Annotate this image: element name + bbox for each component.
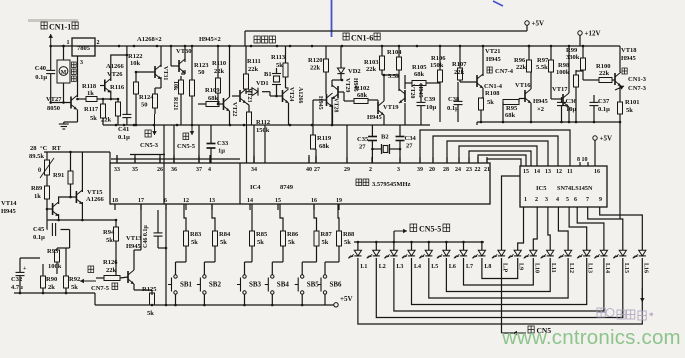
- svg-text:+5V: +5V: [600, 135, 613, 143]
- svg-text:34: 34: [251, 167, 257, 173]
- LED L15: [613, 244, 629, 273]
- transistor VT20: [399, 75, 423, 125]
- svg-text:A1266: A1266: [106, 63, 124, 70]
- svg-text:5k: 5k: [257, 239, 264, 246]
- svg-text:R88: R88: [343, 231, 355, 238]
- transistor VT27: [46, 96, 77, 113]
- svg-text:CN5-5: CN5-5: [177, 143, 196, 150]
- svg-text:R121: R121: [172, 97, 178, 110]
- svg-text:C46 0.1μ: C46 0.1μ: [143, 225, 149, 248]
- svg-text:H945: H945: [126, 243, 142, 250]
- capacitor C38: [447, 82, 463, 122]
- svg-text:R110: R110: [212, 60, 226, 67]
- resistor R118: [76, 83, 118, 102]
- resistor R92: [64, 248, 81, 293]
- resistor R100: [583, 63, 615, 83]
- svg-text:R117: R117: [84, 106, 99, 113]
- svg-text:R123: R123: [194, 62, 209, 69]
- svg-text:R105: R105: [412, 64, 427, 71]
- crystal B2: [372, 134, 400, 155]
- wire: y154 segment: [130, 154, 165, 156]
- svg-text:L7: L7: [466, 264, 473, 270]
- svg-text:L.P: L.P: [502, 263, 508, 273]
- transistor VT29: [332, 78, 358, 125]
- svg-text:330k: 330k: [566, 54, 580, 61]
- svg-text:3: 3: [545, 197, 548, 203]
- svg-text:L16: L16: [642, 263, 648, 273]
- svg-text:C36: C36: [566, 98, 578, 105]
- watermark: [501, 326, 681, 349]
- svg-text:H945: H945: [486, 56, 502, 63]
- wire: CN1-1 drop: [48, 34, 53, 46]
- switch SB3: [237, 262, 262, 305]
- svg-text:VT15: VT15: [87, 189, 103, 196]
- svg-text:A1268×2: A1268×2: [137, 36, 162, 43]
- svg-text:L3: L3: [396, 264, 403, 270]
- resistor R121: [172, 76, 184, 125]
- svg-text:5k: 5k: [191, 239, 198, 246]
- svg-text:*: *: [649, 311, 654, 321]
- svg-text:L13: L13: [587, 263, 593, 273]
- resistor R84: [212, 204, 231, 262]
- switch SB4: [265, 262, 290, 305]
- svg-text:VT17: VT17: [552, 86, 568, 93]
- svg-text:R101: R101: [625, 99, 639, 106]
- transistor VT31: [135, 46, 168, 88]
- svg-text:R122: R122: [128, 53, 142, 60]
- resistor R125: [142, 286, 157, 317]
- power +5V at IC5: [593, 135, 612, 167]
- resistor R124: [139, 88, 158, 114]
- label 由CN7-5来: [80, 266, 118, 292]
- svg-text:R108: R108: [485, 90, 500, 97]
- svg-text:SN74LS145N: SN74LS145N: [557, 185, 593, 192]
- svg-text:H945: H945: [367, 114, 383, 121]
- transistor VT14: [1, 200, 59, 216]
- svg-text:50: 50: [141, 102, 148, 109]
- resistor R122: [128, 53, 142, 125]
- svg-text:L4: L4: [414, 264, 421, 270]
- svg-text:+5V: +5V: [340, 295, 353, 303]
- svg-text:10k: 10k: [172, 81, 178, 91]
- capacitor C36: [557, 97, 577, 122]
- svg-text:10k: 10k: [130, 60, 141, 67]
- svg-text:33: 33: [114, 167, 120, 173]
- capacitor C41: [118, 46, 131, 141]
- svg-text:R102: R102: [355, 85, 369, 92]
- svg-text:×2: ×2: [537, 106, 544, 113]
- resistor R120: [308, 46, 329, 94]
- resistor R104: [382, 46, 402, 90]
- svg-text:13: 13: [209, 198, 215, 204]
- svg-text:5k: 5k: [276, 62, 283, 69]
- resistor R113: [271, 46, 288, 88]
- diode VD1: [246, 80, 277, 96]
- svg-text:5: 5: [566, 197, 569, 203]
- svg-text:R124: R124: [139, 94, 154, 101]
- resistor R98: [556, 62, 583, 122]
- wire: bus IC4-IC5: [420, 130, 570, 166]
- svg-text:5k: 5k: [626, 107, 633, 114]
- svg-text:R104: R104: [387, 49, 402, 56]
- svg-text:1: 1: [67, 40, 70, 46]
- capacitor C32: [11, 258, 40, 293]
- svg-text:27: 27: [406, 143, 413, 150]
- resistor R102: [344, 85, 369, 104]
- svg-text:R92: R92: [69, 276, 80, 283]
- LED L8: [472, 242, 491, 270]
- svg-text:A1266: A1266: [86, 196, 104, 203]
- svg-text:L9: L9: [518, 263, 524, 270]
- svg-text:VT30: VT30: [176, 48, 192, 55]
- svg-text:1μ: 1μ: [218, 148, 225, 155]
- resistor R106: [430, 46, 446, 122]
- transistor VT24: [277, 87, 304, 125]
- svg-text:C45: C45: [33, 226, 45, 233]
- svg-text:VT21: VT21: [485, 48, 501, 55]
- resistor R87: [314, 204, 332, 262]
- svg-text:θ: θ: [38, 168, 41, 174]
- svg-text:21: 21: [484, 167, 490, 173]
- handwriting artifact: [597, 308, 654, 321]
- svg-text:VT23: VT23: [246, 88, 252, 102]
- svg-text:8 10: 8 10: [577, 157, 588, 163]
- svg-text:L2: L2: [379, 264, 386, 270]
- svg-text:5.5k: 5.5k: [536, 64, 548, 71]
- svg-text:7: 7: [586, 197, 589, 203]
- svg-text:6: 6: [574, 197, 577, 203]
- svg-text:R85: R85: [256, 231, 268, 238]
- power +12V: [578, 30, 601, 47]
- svg-text:R84: R84: [219, 231, 231, 238]
- LED L1: [348, 242, 367, 270]
- LED L5: [419, 242, 438, 270]
- svg-text:R98: R98: [558, 62, 570, 69]
- svg-text:5k: 5k: [71, 284, 78, 291]
- svg-text:7805: 7805: [77, 45, 91, 52]
- resistor R123: [190, 46, 210, 125]
- svg-text:R86: R86: [287, 231, 299, 238]
- svg-text:SB2: SB2: [209, 281, 222, 289]
- svg-text:100k: 100k: [556, 69, 570, 76]
- svg-text:2: 2: [369, 167, 372, 173]
- LED L13: [577, 244, 593, 273]
- svg-text:+: +: [23, 266, 27, 272]
- switch SB2: [197, 262, 222, 305]
- LED L12: [559, 244, 575, 273]
- svg-text:27: 27: [359, 144, 366, 151]
- wire: drops to IC4 pins: [117, 125, 347, 163]
- wire: emitter bus: [103, 124, 430, 127]
- svg-text:1k: 1k: [34, 193, 41, 200]
- capacitor C39: [417, 83, 437, 125]
- resistor R86: [280, 204, 299, 262]
- svg-text:www.cntronics.com: www.cntronics.com: [501, 326, 681, 349]
- svg-text:150k: 150k: [430, 62, 444, 69]
- svg-text:68k: 68k: [414, 71, 425, 78]
- svg-text:SB4: SB4: [277, 281, 290, 289]
- svg-text:35: 35: [132, 167, 138, 173]
- wire: LP down to CN5: [502, 262, 514, 333]
- transistor VT15: [76, 152, 104, 220]
- wire: pin6 column: [165, 204, 167, 305]
- resistor R119: [311, 100, 332, 150]
- svg-text:3: 3: [397, 167, 400, 173]
- transistor VT19: [367, 75, 399, 125]
- label 由CN1-6来: [343, 33, 380, 43]
- LED L11: [541, 244, 557, 273]
- svg-text:C40: C40: [35, 65, 46, 72]
- svg-text:VT13: VT13: [126, 235, 142, 242]
- resistor R99: [566, 46, 586, 80]
- arrow below L16: [640, 288, 645, 302]
- wire: VT27 emitter: [64, 110, 78, 123]
- resistor R88: [337, 204, 355, 262]
- svg-text:5k: 5k: [90, 115, 97, 122]
- svg-text:1: 1: [524, 197, 527, 203]
- svg-text:SB1: SB1: [180, 281, 193, 289]
- svg-text:C34: C34: [405, 135, 417, 142]
- svg-text:IC5: IC5: [536, 185, 547, 192]
- svg-text:22k: 22k: [101, 117, 112, 124]
- capacitor C35: [357, 125, 377, 163]
- svg-text:CN1-3: CN1-3: [628, 76, 647, 83]
- LED L10: [524, 244, 540, 273]
- capacitor C40: [35, 45, 55, 103]
- svg-text:22k: 22k: [310, 65, 321, 72]
- LED L6: [437, 242, 456, 270]
- resistor R95: [503, 99, 519, 123]
- svg-text:28: 28: [443, 167, 449, 173]
- transistor VT17: [551, 46, 569, 122]
- wire: mid column drops: [254, 125, 316, 163]
- scan smudge top-left: [28, 19, 78, 22]
- transistor VT26: [100, 54, 128, 101]
- svg-text:100k: 100k: [48, 263, 62, 270]
- svg-text:VT27: VT27: [46, 96, 62, 103]
- svg-text:22k: 22k: [454, 69, 465, 76]
- svg-text:15: 15: [523, 169, 529, 175]
- svg-text:C37: C37: [598, 98, 610, 105]
- svg-text:L11: L11: [550, 263, 556, 273]
- svg-text:28: 28: [30, 145, 37, 152]
- svg-text:22k: 22k: [516, 64, 527, 71]
- svg-text:R118: R118: [82, 83, 97, 90]
- svg-text:R97: R97: [537, 57, 549, 64]
- svg-text:R83: R83: [190, 231, 202, 238]
- label 去CN5-5: [177, 121, 196, 150]
- svg-text:50: 50: [198, 69, 205, 76]
- pin numbers IC5 bottom: [524, 197, 602, 203]
- svg-text:R125: R125: [142, 286, 157, 293]
- resistor R90: [41, 264, 58, 293]
- resistor R97: [536, 46, 554, 99]
- wire: LED feed rail: [354, 241, 484, 244]
- resistor R117: [84, 98, 106, 125]
- transistor VT16: [515, 72, 531, 122]
- svg-text:2: 2: [97, 40, 100, 46]
- svg-text:R91: R91: [53, 172, 64, 179]
- wire: IC5 to LEDs: [518, 207, 643, 244]
- svg-text:37: 37: [196, 167, 202, 173]
- svg-text:C41: C41: [118, 126, 129, 133]
- resistor R101: [618, 99, 640, 123]
- svg-text:R95: R95: [506, 105, 518, 112]
- wire: VT27 collector to 7805 pin3: [76, 56, 79, 97]
- wire: IC4 pin stubs bottom: [115, 204, 339, 210]
- svg-text:29: 29: [344, 167, 350, 173]
- svg-text:L15: L15: [623, 263, 629, 273]
- wire: main +V rail (y=44): [50, 45, 620, 47]
- svg-text:R119: R119: [317, 135, 332, 142]
- resistor R91: [53, 151, 73, 197]
- svg-text:2k: 2k: [48, 284, 55, 291]
- svg-text:VT20: VT20: [409, 84, 415, 98]
- thermistor RT: [29, 145, 61, 186]
- svg-text:R94: R94: [103, 229, 115, 236]
- svg-text:4: 4: [556, 197, 559, 203]
- svg-text:5k: 5k: [220, 239, 227, 246]
- svg-text:26: 26: [157, 167, 163, 173]
- label pins 8 10: [577, 157, 588, 166]
- wire: y159 line: [111, 158, 240, 160]
- svg-text:0.1μ: 0.1μ: [447, 105, 459, 112]
- svg-text:36: 36: [171, 167, 177, 173]
- svg-text:89.5k: 89.5k: [29, 153, 44, 160]
- svg-text:5k: 5k: [288, 239, 295, 246]
- svg-text:150k: 150k: [256, 127, 270, 134]
- svg-text:5.5k: 5.5k: [388, 73, 400, 80]
- svg-text:R87: R87: [321, 231, 333, 238]
- svg-text:H945: H945: [417, 84, 423, 98]
- transistor VT30: [171, 46, 192, 74]
- label crystal freq: [356, 179, 411, 188]
- svg-text:CN1-4: CN1-4: [484, 83, 503, 90]
- node: junction dots on rails: [62, 45, 584, 48]
- svg-text:2: 2: [535, 197, 538, 203]
- resistor R103: [364, 46, 385, 76]
- svg-text:8050: 8050: [47, 105, 60, 112]
- pin numbers IC4 bottom: [112, 198, 342, 204]
- svg-text:L5: L5: [431, 264, 438, 270]
- wire: emitter node y220: [48, 219, 116, 222]
- svg-text:CN7-4: CN7-4: [495, 68, 514, 75]
- svg-text:12: 12: [183, 198, 189, 204]
- svg-text:R120: R120: [308, 57, 322, 64]
- svg-text:CN5-5: CN5-5: [419, 225, 441, 234]
- resistor R112: [247, 112, 271, 134]
- svg-text:22: 22: [475, 167, 481, 173]
- svg-text:VT22: VT22: [231, 102, 237, 116]
- svg-text:R96: R96: [514, 57, 526, 64]
- wire: IC4 inner vlines: [164, 163, 240, 204]
- svg-text:0.1μ: 0.1μ: [598, 106, 610, 113]
- svg-text:0.1μ: 0.1μ: [33, 234, 45, 241]
- svg-text:68k: 68k: [357, 92, 368, 99]
- wire: left ground bus: [14, 292, 95, 305]
- svg-text:39: 39: [417, 167, 423, 173]
- IC U-IC4 8749: [110, 163, 490, 204]
- svg-text:°C: °C: [40, 145, 48, 152]
- svg-text:VD1: VD1: [256, 80, 269, 87]
- svg-text:VT24: VT24: [288, 87, 294, 101]
- resistor R111: [244, 46, 261, 92]
- diode VD2: [337, 46, 360, 80]
- svg-text:24: 24: [455, 167, 461, 173]
- svg-text:15: 15: [275, 198, 281, 204]
- svg-text:12: 12: [556, 169, 562, 175]
- wire: RT rail: [44, 152, 110, 163]
- svg-text:5k: 5k: [344, 239, 351, 246]
- wire: CN1-6 rail (y=31): [245, 31, 527, 46]
- label H945x2: [199, 36, 221, 43]
- svg-text:R109: R109: [205, 87, 220, 94]
- svg-text:C39: C39: [424, 96, 436, 103]
- svg-text:16: 16: [594, 169, 600, 175]
- LED L2: [367, 242, 386, 270]
- power +5V top: [525, 20, 544, 32]
- crystal B1: [264, 68, 281, 97]
- svg-text:R111: R111: [247, 58, 261, 65]
- LED L16: [633, 244, 649, 273]
- transistor VT22: [219, 46, 237, 125]
- label 由CN1-1来: [41, 22, 78, 32]
- power +5V bottom: [334, 295, 353, 307]
- svg-text:8749: 8749: [280, 184, 294, 191]
- svg-text:C33: C33: [217, 140, 229, 147]
- svg-text:11: 11: [567, 169, 573, 175]
- label buzzer: [254, 36, 275, 43]
- svg-text:IC4: IC4: [250, 184, 261, 191]
- svg-text:L6: L6: [449, 264, 456, 270]
- svg-text:VT14: VT14: [1, 200, 17, 207]
- svg-text:R116: R116: [110, 84, 125, 91]
- label H945 x2: [533, 98, 549, 113]
- svg-text:H945: H945: [621, 55, 637, 62]
- svg-text:CN1-6: CN1-6: [351, 34, 373, 43]
- svg-text:VT28: VT28: [333, 98, 339, 112]
- svg-text:H945: H945: [533, 98, 549, 105]
- svg-text:3.579545MHz: 3.579545MHz: [372, 181, 411, 188]
- svg-text:10μ: 10μ: [426, 104, 437, 111]
- svg-text:3: 3: [80, 60, 83, 66]
- svg-text:R90: R90: [46, 276, 57, 283]
- resistor R94: [103, 219, 119, 275]
- svg-text:SB3: SB3: [249, 281, 262, 289]
- LED L4: [402, 242, 421, 270]
- svg-text:22k: 22k: [248, 66, 259, 73]
- resistor R105: [405, 64, 440, 86]
- svg-text:VT16: VT16: [515, 82, 531, 89]
- svg-text:0.1μ: 0.1μ: [35, 74, 47, 81]
- resistor R109: [198, 87, 220, 107]
- resistor R108: [479, 90, 501, 122]
- label 去CN7-4 CN1-4: [484, 67, 514, 90]
- svg-text:L12: L12: [568, 263, 574, 273]
- transistor VT21: [460, 46, 502, 98]
- svg-text:18: 18: [112, 198, 118, 204]
- capacitor C45: [33, 209, 70, 241]
- svg-text:+12V: +12V: [585, 30, 601, 38]
- svg-text:14: 14: [534, 169, 540, 175]
- capacitor C46: [143, 210, 167, 249]
- resistor R93: [47, 230, 70, 275]
- svg-text:40: 40: [306, 167, 312, 173]
- transistor VT13: [126, 204, 152, 295]
- svg-text:68k: 68k: [505, 112, 516, 119]
- svg-text:H945: H945: [317, 96, 323, 110]
- svg-text:VT26: VT26: [107, 71, 123, 78]
